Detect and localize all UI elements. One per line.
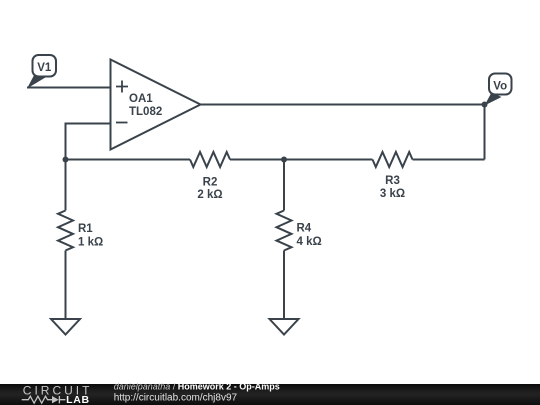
wire: junction down to R4 bbox=[283, 160, 285, 211]
resistor R4 4k bbox=[277, 211, 322, 251]
op-amp OA1 TL082 bbox=[111, 60, 201, 150]
svg-text:R2: R2 bbox=[203, 177, 218, 189]
wire: junction down to R1 bbox=[65, 160, 67, 211]
svg-text:TL082: TL082 bbox=[129, 106, 162, 118]
flag V1 bbox=[27, 55, 56, 89]
wire: R4 to ground bbox=[283, 251, 285, 320]
svg-text:R4: R4 bbox=[297, 223, 312, 235]
wire: R1 to ground bbox=[65, 251, 67, 320]
svg-text:danielpanatha / Homework 2 - O: danielpanatha / Homework 2 - Op-Amps bbox=[114, 382, 280, 392]
footer bar bbox=[0, 384, 540, 405]
node: inverting input junction bbox=[63, 157, 69, 163]
wire: op-amp output bbox=[201, 104, 485, 106]
resistor R3 3k bbox=[373, 152, 413, 200]
CircuitLab logo bbox=[22, 384, 93, 405]
svg-text:R3: R3 bbox=[385, 175, 400, 187]
svg-text:1 kΩ: 1 kΩ bbox=[78, 237, 103, 249]
svg-text:V1: V1 bbox=[37, 62, 52, 74]
ground (R4) bbox=[270, 319, 299, 335]
svg-text:OA1: OA1 bbox=[129, 93, 153, 105]
svg-text:LAB: LAB bbox=[66, 394, 90, 405]
resistor R2 2k bbox=[190, 152, 230, 201]
svg-text:2 kΩ: 2 kΩ bbox=[197, 189, 222, 201]
svg-text:R1: R1 bbox=[78, 223, 93, 235]
node: output junction bbox=[482, 102, 488, 108]
flag Vo bbox=[485, 74, 512, 106]
ground (R1) bbox=[51, 319, 80, 335]
wire: V1 source to op-amp non-inverting input bbox=[27, 87, 111, 89]
wire: rail right segment bbox=[413, 159, 485, 161]
svg-text:Vo: Vo bbox=[493, 80, 507, 92]
svg-text:http://circuitlab.com/chj8v97: http://circuitlab.com/chj8v97 bbox=[114, 392, 238, 403]
resistor R1 1k bbox=[58, 211, 103, 251]
wire: op-amp inverting input to feedback node bbox=[66, 124, 111, 160]
wire: feedback rail left segment bbox=[66, 159, 191, 161]
node: R4 tap junction bbox=[281, 157, 287, 163]
wire: rail between R2 and R3 bbox=[230, 159, 373, 161]
svg-text:3 kΩ: 3 kΩ bbox=[380, 188, 405, 200]
wire: output down to feedback rail bbox=[484, 105, 486, 160]
svg-text:4 kΩ: 4 kΩ bbox=[297, 236, 322, 248]
